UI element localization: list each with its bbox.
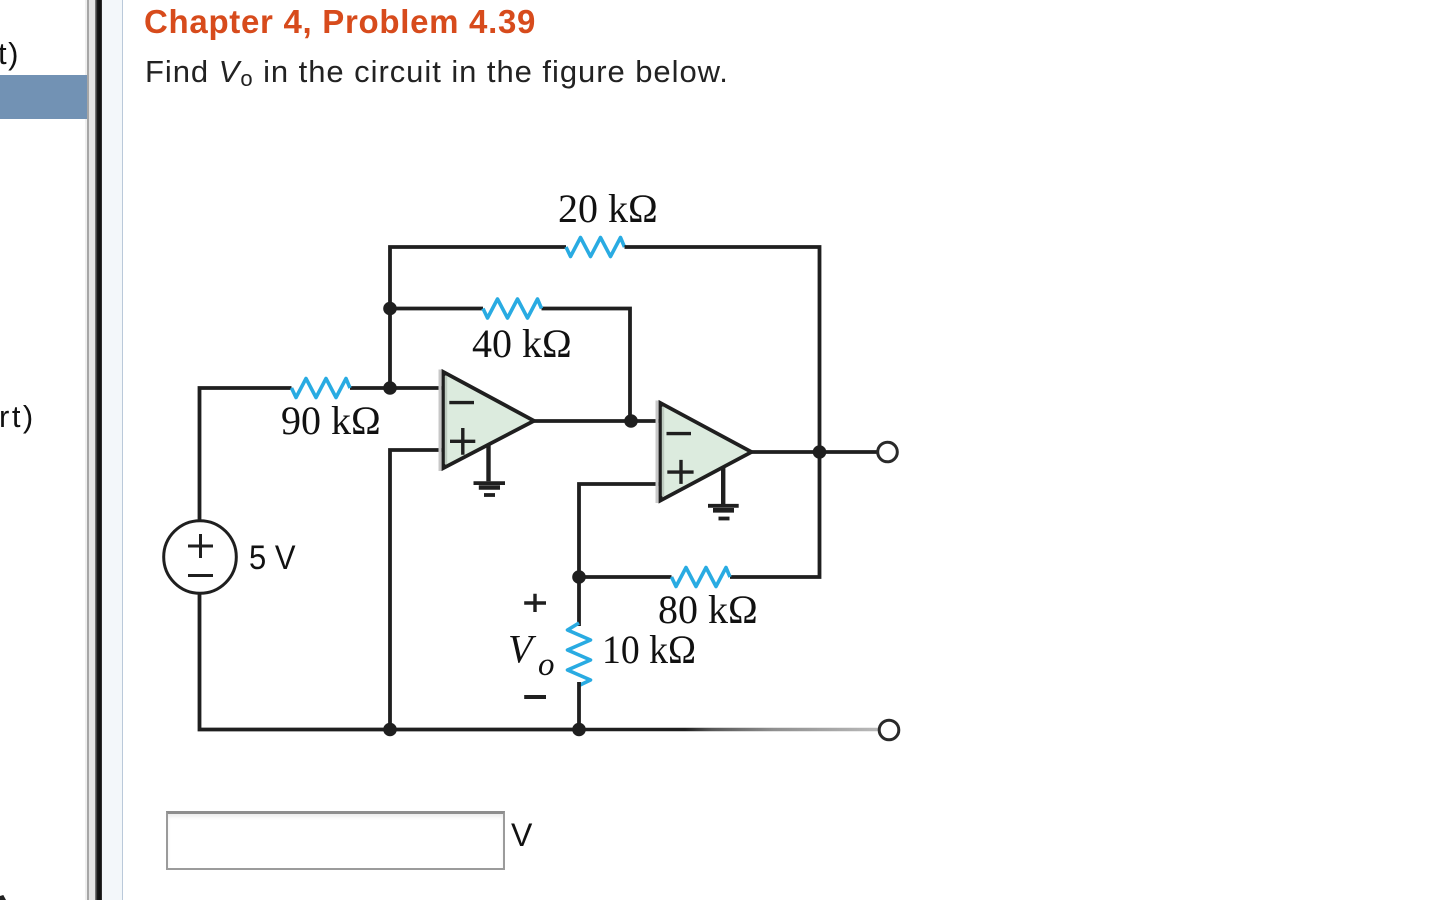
op-amp U2 shadow bbox=[656, 401, 659, 504]
ground G2 under op-amp U2 bbox=[708, 467, 739, 519]
svg-text:5 V: 5 V bbox=[249, 539, 296, 577]
answer input box bbox=[166, 811, 505, 870]
frame separator: black divider bbox=[95, 0, 102, 900]
op-amp U1 plus marking bbox=[450, 428, 475, 455]
op-amp U1 triangle bbox=[444, 372, 535, 468]
resistor R2 40 kΩ zigzag bbox=[483, 299, 542, 318]
op-amp U2 plus marking bbox=[667, 460, 693, 484]
resistor R4 80 kΩ zigzag bbox=[672, 568, 731, 587]
answer unit label V bbox=[511, 819, 532, 851]
op-amp U2 inner edge shade bbox=[662, 407, 664, 496]
junction node C (op1 out / 40k) bbox=[624, 414, 638, 428]
wire 10k bottom stub bbox=[577, 682, 581, 730]
problem title bbox=[144, 5, 536, 38]
problem statement bbox=[145, 56, 729, 87]
svg-text:o: o bbox=[538, 647, 555, 683]
resistor R5 10 kΩ vertical zigzag bbox=[568, 623, 591, 686]
op-amp U1 minus marking bbox=[449, 401, 474, 404]
wire top loop left: from node B up and right to 20k bbox=[390, 247, 566, 388]
junction node A (90k / op1 inv) bbox=[383, 381, 397, 395]
op-amp U1 inner edge shade bbox=[445, 376, 447, 464]
wire op1 non-inverting input down to bottom rail bbox=[390, 450, 443, 730]
output terminal bottom bbox=[879, 720, 899, 740]
svg-text:10 kΩ: 10 kΩ bbox=[602, 627, 696, 672]
frame separator: light blue gutter bbox=[102, 0, 123, 900]
svg-text:20 kΩ: 20 kΩ bbox=[558, 186, 658, 231]
svg-text:80 kΩ: 80 kΩ bbox=[658, 587, 758, 632]
wire 10k top stub bbox=[577, 577, 581, 626]
junction node bottom rail at 10k bbox=[572, 723, 586, 737]
resistor R3 90 kΩ zigzag bbox=[292, 379, 351, 398]
frame separator: scrollbar track bbox=[85, 0, 87, 900]
resistor R1 20 kΩ zigzag bbox=[566, 238, 625, 257]
junction node Vo top bbox=[572, 570, 586, 584]
wire op2 output to terminal bbox=[751, 450, 877, 454]
output terminal top bbox=[878, 442, 898, 462]
ground G1 under op-amp U1 bbox=[474, 445, 506, 495]
label Vo plus sign bbox=[524, 594, 546, 612]
svg-text:40 kΩ: 40 kΩ bbox=[472, 321, 572, 366]
voltage source V1 minus marking bbox=[188, 574, 213, 577]
voltage source V1 5V circle bbox=[164, 521, 237, 594]
voltage source V1 plus marking bbox=[188, 534, 213, 558]
op-amp U1 shadow bbox=[439, 370, 442, 472]
wire bottom rail fading segment to output terminal bbox=[578, 728, 878, 731]
svg-text:V: V bbox=[508, 626, 537, 671]
wire op1 output to op2 inverting input bbox=[533, 419, 660, 423]
op-amp U2 minus marking bbox=[667, 432, 692, 435]
junction node D (op2 out / 20k / 80k) bbox=[813, 445, 827, 459]
label Vo minus sign bbox=[524, 695, 546, 699]
junction node B (40k tap) bbox=[383, 302, 397, 316]
svg-text:90 kΩ: 90 kΩ bbox=[281, 398, 381, 443]
wire left rail below source to bottom rail bbox=[200, 593, 579, 729]
wire 40k feedback from node B bbox=[390, 309, 630, 422]
wire top right + right rail down to 80k corner bbox=[625, 247, 820, 577]
wire 90k input segment bbox=[200, 388, 391, 521]
left pane bottom clipped glyph bbox=[0, 895, 6, 900]
wire 80k left segment bbox=[579, 575, 672, 579]
left pane blue-gray selection bar bbox=[0, 75, 87, 119]
op-amp U2 triangle bbox=[661, 403, 752, 501]
left pane clipped text "t)" bbox=[0, 38, 20, 69]
wire op1 inverting input bbox=[390, 386, 443, 390]
left pane clipped text "rt)" bbox=[0, 401, 36, 432]
wire op2 non-inverting input loop to Vo node bbox=[579, 484, 660, 577]
junction node bottom rail at op1 + branch bbox=[383, 723, 397, 737]
